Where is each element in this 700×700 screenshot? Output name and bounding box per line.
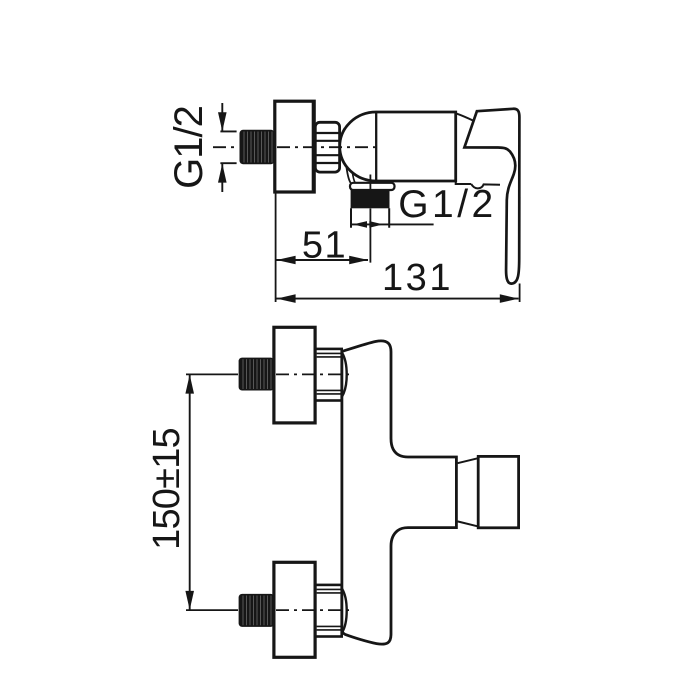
svg-text:51: 51: [302, 224, 347, 266]
svg-text:G1/2: G1/2: [398, 183, 497, 226]
svg-text:150±15: 150±15: [146, 428, 188, 550]
svg-text:131: 131: [382, 257, 453, 299]
svg-text:G1/2: G1/2: [167, 106, 211, 189]
